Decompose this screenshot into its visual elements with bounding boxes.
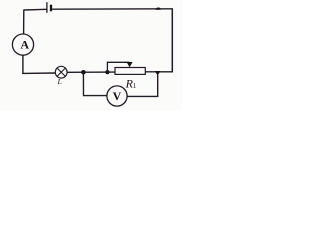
rheostat slider arrowhead: [127, 62, 133, 67]
blob on top wire: [155, 8, 160, 10]
wire: top-left horizontal to battery: [24, 8, 47, 11]
lamp L circle: [55, 66, 67, 78]
wire: rheostat to right vertical: [145, 71, 173, 73]
lamp L cross: [57, 68, 65, 76]
junction node (triangle blob): [155, 71, 161, 76]
rheostat R1 body: [115, 68, 145, 75]
junction node (lamp/voltmeter): [81, 70, 86, 75]
ammeter U1 circle: [12, 34, 33, 55]
junction node (slider tap): [105, 70, 109, 74]
rheostat slider wire: [107, 62, 129, 71]
svg-text:A: A: [20, 37, 29, 51]
battery B1 long plate: [46, 2, 48, 13]
wire: right vertical: [171, 9, 173, 73]
wire: left vertical below ammeter: [22, 55, 24, 74]
wire: left vertical above ammeter: [23, 10, 25, 35]
wire: lamp to rheostat: [67, 71, 115, 73]
wire: bottom-left horizontal to lamp: [22, 72, 55, 74]
wire: voltmeter left branch: [83, 72, 106, 95]
wire: voltmeter right branch: [127, 75, 158, 96]
svg-text:1: 1: [133, 82, 137, 90]
voltmeter U2 circle: [107, 86, 127, 106]
battery B1 short thick plate: [50, 5, 52, 12]
svg-text:L: L: [57, 77, 62, 86]
svg-text:V: V: [113, 89, 122, 103]
wire: battery to top-right corner: [52, 8, 173, 10]
